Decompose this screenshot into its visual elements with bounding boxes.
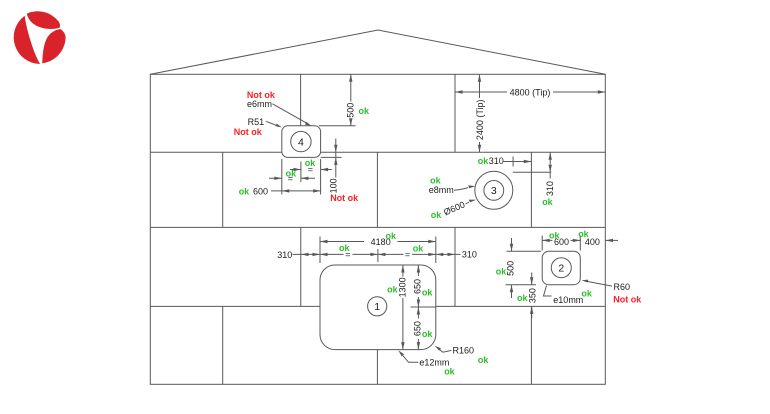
dimension 650 lower inside opening 1 (413, 307, 434, 350)
dimension 650 upper inside opening 1 (413, 265, 434, 307)
extensions below opening 4 (282, 159, 321, 195)
centre tick opening 1 (377, 249, 379, 262)
svg-text:400: 400 (585, 237, 600, 247)
svg-text:ok: ok (517, 293, 528, 303)
dimension 600 opening 2 (542, 229, 589, 247)
leader R51 (266, 121, 279, 126)
opening 4 (282, 126, 321, 158)
band3 divider b (454, 227, 456, 306)
svg-text:ok: ok (431, 210, 442, 220)
dimension 310 vertical right of circle 3 (513, 152, 555, 207)
dimension 2400 (Tip) (475, 74, 485, 152)
dimension 4800 (Tip) (455, 87, 605, 97)
equal dim right half below opening 4 (290, 158, 332, 175)
equal dim right of centre opening 1 (378, 243, 436, 259)
dimension 350 opening 2 (517, 273, 538, 319)
svg-text:ok: ok (386, 231, 397, 241)
svg-text:ok: ok (359, 106, 370, 116)
label R160 (435, 346, 490, 365)
svg-text:ok: ok (478, 355, 489, 365)
band2 divider a (222, 152, 224, 227)
svg-text:4: 4 (298, 136, 304, 148)
dimension 500 at opening 4 (319, 74, 370, 126)
dimension 600 below opening 4 (239, 187, 321, 197)
equal dim left half below opening 4 (269, 168, 315, 183)
svg-text:ok: ok (478, 156, 489, 166)
svg-text:ok: ok (430, 176, 441, 186)
svg-text:ok: ok (413, 243, 424, 253)
extension lines 4180 (320, 237, 436, 264)
band4 divider c (530, 306, 532, 384)
svg-text:1300: 1300 (397, 277, 407, 297)
svg-text:e10mm: e10mm (553, 295, 583, 305)
roof (150, 30, 605, 74)
svg-text:ok: ok (387, 285, 398, 295)
svg-text:310: 310 (277, 250, 292, 260)
svg-text:ok: ok (581, 289, 592, 299)
svg-text:ok: ok (496, 267, 507, 277)
logo petal top (27, 11, 60, 29)
dimension 500 opening 2 (496, 238, 541, 298)
svg-text:ok: ok (422, 329, 433, 339)
svg-text:ok: ok (286, 168, 297, 178)
band2 divider c (530, 152, 532, 227)
svg-text:2400 (Tip): 2400 (Tip) (475, 99, 485, 140)
balloon 2 (551, 258, 571, 278)
svg-text:ok: ok (422, 287, 433, 297)
band4 divider a (222, 306, 224, 384)
label e8mm (429, 176, 476, 196)
band4 divider b (376, 350, 378, 385)
svg-text:ok: ok (339, 243, 350, 253)
svg-text:R160: R160 (453, 346, 475, 356)
svg-text:ok: ok (549, 230, 560, 240)
mid tick opening 1 (411, 306, 436, 308)
svg-text:ok: ok (305, 158, 316, 168)
svg-text:R60: R60 (614, 282, 631, 292)
leader e6mm (273, 104, 309, 124)
opening 3 circle (475, 171, 513, 209)
svg-text:4800 (Tip): 4800 (Tip) (510, 87, 551, 97)
svg-text:Not ok: Not ok (330, 193, 359, 203)
band line 2 (150, 226, 605, 228)
logo (14, 11, 66, 64)
svg-text:2: 2 (558, 263, 564, 275)
dimension 1300 inside opening 1 (387, 265, 407, 350)
dimension 4180 (320, 231, 436, 247)
svg-text:310: 310 (545, 181, 555, 196)
label e10mm (544, 286, 593, 305)
svg-text:350: 350 (528, 288, 538, 303)
svg-text:e6mm: e6mm (247, 99, 272, 109)
wall outline (150, 74, 605, 384)
dimension 400 opening 2 (585, 237, 618, 247)
equal dim left of centre opening 1 (320, 243, 378, 260)
svg-text:600: 600 (253, 187, 268, 197)
band2 divider b (376, 152, 378, 227)
svg-text:ok: ok (542, 197, 553, 207)
opening 1 (320, 265, 436, 350)
logo petal right (42, 29, 65, 63)
dimension 310 left of opening 1 (277, 250, 320, 260)
svg-text:310: 310 (489, 156, 504, 166)
band line 3 (150, 305, 605, 307)
band1 divider a (300, 74, 302, 152)
svg-text:Not ok: Not ok (234, 127, 263, 137)
opening 2 (542, 251, 580, 284)
svg-text:310: 310 (462, 249, 477, 259)
balloon 1 (368, 297, 387, 316)
svg-text:500: 500 (345, 103, 355, 118)
svg-text:R51: R51 (248, 117, 265, 127)
band3 divider a (300, 227, 302, 306)
svg-text:ok: ok (444, 366, 455, 376)
logo petal left (14, 16, 40, 64)
svg-text:1: 1 (374, 301, 380, 313)
svg-text:100: 100 (329, 178, 339, 193)
band1 divider b (454, 74, 456, 152)
label e12mm (398, 350, 455, 376)
svg-text:3: 3 (491, 185, 497, 197)
dimension 100 at opening 4 (321, 139, 360, 204)
band line 1 (150, 151, 605, 153)
label Ø600 (431, 199, 476, 220)
balloon 3 (484, 181, 504, 201)
label R60 (582, 280, 643, 305)
svg-text:=: = (405, 249, 410, 259)
svg-text:500: 500 (505, 261, 515, 276)
svg-text:ok: ok (239, 187, 250, 197)
dimension 310 right of opening 1 (436, 249, 477, 259)
dimension 310 right of circle 3 (478, 156, 532, 166)
svg-text:Not ok: Not ok (613, 295, 642, 305)
extension lines 600 opening 2 (542, 236, 580, 251)
balloon 4 (291, 131, 311, 151)
svg-text:e8mm: e8mm (429, 185, 454, 195)
